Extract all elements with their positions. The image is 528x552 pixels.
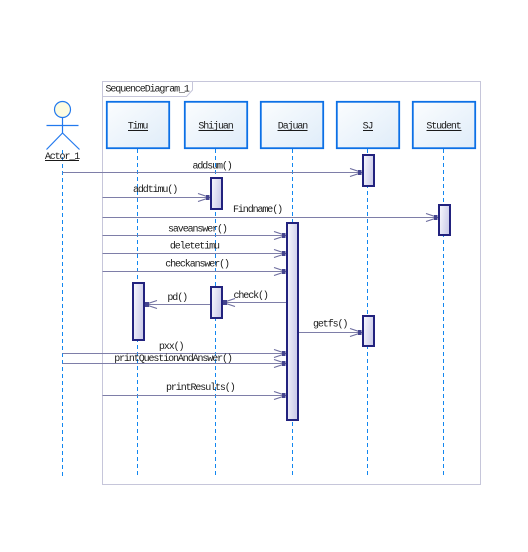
svg-text:addtimu(): addtimu() xyxy=(133,184,177,196)
activation bar Student xyxy=(439,205,450,235)
svg-text:addsum(): addsum() xyxy=(193,160,232,172)
object box Dajuan xyxy=(261,102,323,148)
svg-text:check(): check() xyxy=(234,290,268,302)
svg-text:checkanswer(): checkanswer() xyxy=(165,259,229,271)
lifeline Dajuan dashed line xyxy=(292,149,294,477)
object box SJ xyxy=(337,102,399,148)
object box Student xyxy=(413,102,475,148)
svg-text:deletetimu: deletetimu xyxy=(170,241,220,253)
message addtimu() line xyxy=(103,184,211,201)
lifeline Shijuan dashed line xyxy=(215,149,217,477)
message saveanswer() line xyxy=(103,224,287,240)
object box Shijuan xyxy=(185,102,247,148)
lifeline Timu dashed line xyxy=(137,149,139,477)
lifeline SJ dashed line xyxy=(367,149,369,477)
svg-text:getfs(): getfs() xyxy=(313,319,347,331)
lifeline Student dashed line xyxy=(443,149,445,477)
message addsum() line xyxy=(63,160,363,176)
message getfs() line xyxy=(299,319,362,337)
activation bar Dajuan (long) xyxy=(287,223,298,420)
activation bar Shijuan 2 xyxy=(211,287,222,318)
activation bar SJ 2 xyxy=(363,316,374,346)
actor lifeline xyxy=(62,150,64,479)
frame tab label SequenceDiagram_1 xyxy=(103,82,193,97)
svg-text:Findname(): Findname() xyxy=(233,204,282,216)
message check() line xyxy=(223,290,286,306)
frame SequenceDiagram_1 xyxy=(103,82,481,485)
message printResults() line xyxy=(103,382,287,400)
activation bar SJ 1 xyxy=(363,155,374,186)
object box Timu xyxy=(107,102,169,148)
message checkanswer() line xyxy=(103,259,287,276)
svg-text:printResults(): printResults() xyxy=(166,382,235,394)
message Findname() line xyxy=(103,204,439,221)
activation bar Shijuan 1 xyxy=(211,178,222,209)
message pd() line xyxy=(145,292,210,309)
actor Actor_1 xyxy=(47,102,80,150)
svg-text:pd(): pd() xyxy=(167,292,187,304)
svg-text:saveanswer(): saveanswer() xyxy=(168,224,227,236)
activation bar Timu xyxy=(133,283,144,340)
svg-text:Actor_1: Actor_1 xyxy=(45,152,80,163)
message printQuestionAndAnswer() line xyxy=(63,353,287,368)
actor label Actor_1 xyxy=(45,152,80,163)
message deletetimu line xyxy=(103,241,287,258)
svg-text:SequenceDiagram_1: SequenceDiagram_1 xyxy=(106,84,190,96)
svg-text:pxx(): pxx() xyxy=(159,341,184,353)
message pxx() line xyxy=(63,341,287,358)
svg-text:printQuestionAndAnswer(): printQuestionAndAnswer() xyxy=(114,353,232,365)
